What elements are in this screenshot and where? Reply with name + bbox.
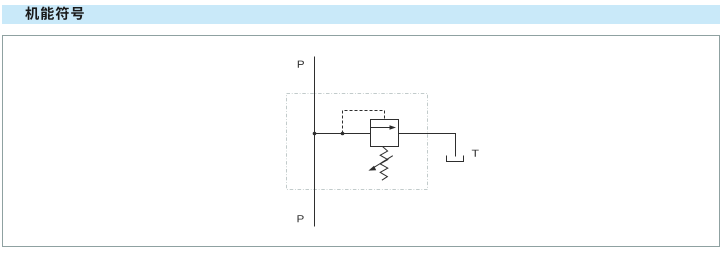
node T label: [472, 150, 479, 157]
tank symbol: [447, 156, 464, 162]
header bar: [2, 5, 720, 24]
pilot dashed line: [343, 111, 385, 134]
node P label bottom: [297, 215, 303, 222]
adjustment arrow through spring: [373, 156, 393, 169]
wire P vertical line: [314, 57, 316, 227]
wire main line left segment: [315, 133, 371, 135]
junction dot on P line: [313, 132, 317, 136]
wire down to tank: [455, 133, 457, 157]
flow arrow inside valve: [371, 127, 391, 129]
relief valve body square: [371, 120, 399, 147]
dashed enclosure (valve assembly boundary): [287, 94, 428, 190]
spring (zigzag) below valve: [380, 147, 388, 181]
junction dot pilot tap: [341, 132, 345, 136]
node P label top: [298, 61, 304, 68]
wire main line right segment: [399, 133, 456, 135]
